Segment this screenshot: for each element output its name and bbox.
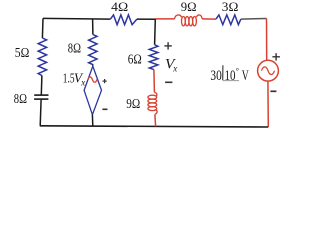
wire left between resistor and capacitor <box>40 76 43 95</box>
wire right lower red <box>267 81 269 127</box>
svg-text:3Ω: 3Ω <box>222 0 239 14</box>
wire left lower <box>39 100 42 126</box>
dependent source sine <box>88 77 97 82</box>
label 30 angle 10 V <box>210 65 248 84</box>
resistor 5ohm <box>38 38 46 76</box>
svg-text:4Ω: 4Ω <box>111 0 128 14</box>
resistor 8ohm <box>89 35 97 65</box>
source V1 minus <box>270 90 276 92</box>
wire below diamond <box>91 115 93 126</box>
wire red between 6ohm and inductor <box>153 70 156 93</box>
wire red below inductor <box>154 114 157 126</box>
wire top-left horizontal <box>43 17 110 20</box>
svg-text:9Ω: 9Ω <box>126 97 140 112</box>
svg-text:9Ω: 9Ω <box>181 0 197 14</box>
wire top red left of inductor <box>155 18 175 20</box>
wire between 8ohm resistor and diamond <box>92 64 94 66</box>
capacitor 8ohm plates <box>34 95 48 99</box>
source V1 circle <box>258 60 279 81</box>
label Vx plus <box>164 42 171 49</box>
dependent source minus <box>102 108 107 110</box>
svg-text:°: ° <box>236 66 239 76</box>
source V1 plus <box>272 53 280 60</box>
wire right upper red <box>266 19 268 61</box>
svg-text:8Ω: 8Ω <box>14 92 27 107</box>
dependent source 1.5Vx diamond <box>84 66 101 115</box>
label Vx <box>165 57 177 74</box>
resistor 4ohm <box>110 15 136 25</box>
wire 6ohm branch top <box>154 19 157 45</box>
svg-text:x: x <box>172 64 177 74</box>
svg-text:x: x <box>80 77 85 87</box>
wire top-middle black <box>137 18 155 20</box>
resistor 6ohm <box>149 45 158 70</box>
svg-text:1.5: 1.5 <box>63 72 75 87</box>
inductor 9ohm bottom <box>148 92 157 114</box>
svg-text:10: 10 <box>225 68 236 84</box>
wire top-right gray <box>241 18 267 21</box>
label 1.5Vx <box>63 72 85 88</box>
svg-text:5Ω: 5Ω <box>15 46 30 61</box>
dependent source plus <box>103 79 107 83</box>
wire left upper <box>41 18 44 38</box>
wire top red right of inductor <box>202 18 216 20</box>
resistor 3ohm <box>216 15 241 25</box>
svg-text:30: 30 <box>210 68 221 84</box>
svg-text:6Ω: 6Ω <box>128 53 142 68</box>
source V1 sine <box>262 67 275 75</box>
svg-text:8Ω: 8Ω <box>68 41 81 56</box>
label Vx minus <box>165 81 172 83</box>
wire 8ohm branch top <box>92 19 94 34</box>
inductor 9ohm top <box>175 15 203 26</box>
wire bottom <box>40 126 268 127</box>
svg-text:V: V <box>242 68 249 84</box>
